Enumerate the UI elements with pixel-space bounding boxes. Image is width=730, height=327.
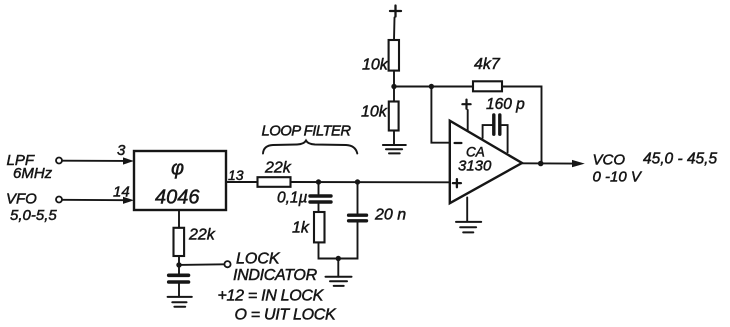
wire to capacitor 0,1u: [318, 182, 320, 194]
resistor 1k vertical: [314, 212, 325, 242]
resistor 22k horizontal loop filter: [258, 177, 291, 187]
op-amp minus sign: [455, 142, 462, 144]
svg-text:13: 13: [228, 167, 244, 183]
svg-text:3: 3: [117, 142, 126, 159]
wire divider node to 10k lower: [393, 87, 395, 102]
wire 20n bottom: [338, 222, 357, 258]
node lock indicator terminal: [224, 261, 230, 267]
wire 4046 bottom to 22k: [178, 210, 180, 228]
capacitor 160p compensation bracket: [483, 125, 492, 138]
wire node to capacitor: [178, 265, 180, 274]
svg-text:VCO: VCO: [593, 152, 626, 169]
svg-text:14: 14: [113, 184, 130, 201]
node divider junction: [391, 84, 396, 89]
node LPF input terminal: [56, 158, 62, 164]
wire main line to op-amp + input: [291, 181, 450, 183]
svg-text:4046: 4046: [155, 187, 200, 209]
node junction dot C loop filter ground: [336, 256, 341, 261]
node junction dot minus branch: [429, 84, 434, 89]
node junction dot B: [355, 179, 360, 184]
wire 22k to node: [178, 256, 180, 265]
resistor 10k upper: [389, 40, 399, 71]
resistor 10k lower: [389, 102, 399, 131]
svg-text:VFO: VFO: [6, 191, 37, 208]
wire VFO to 4046 pin 14: [62, 199, 125, 201]
wire supply to 10k: [393, 18, 396, 41]
wire 1k bottom: [319, 242, 339, 258]
svg-text:1k: 1k: [292, 220, 310, 237]
wire to capacitor 20n: [357, 182, 359, 214]
svg-text:45,0 - 45,5: 45,0 - 45,5: [643, 151, 717, 168]
node output junction dot: [538, 161, 544, 167]
svg-text:160 p: 160 p: [486, 96, 525, 113]
svg-text:20 n: 20 n: [374, 207, 406, 224]
svg-text:10k: 10k: [362, 57, 389, 74]
ground op-amp: [456, 221, 481, 223]
wire 10k to divider node: [393, 71, 395, 87]
capacitor lock filter plates: [169, 273, 189, 277]
power op-amp supply pin: [462, 103, 470, 105]
svg-text:4k7: 4k7: [474, 56, 501, 73]
svg-text:6MHz: 6MHz: [13, 165, 53, 182]
wire 4k7 to output: [502, 87, 542, 164]
svg-text:φ: φ: [171, 158, 184, 180]
svg-text:INDICATOR: INDICATOR: [233, 267, 318, 284]
ground divider: [383, 144, 406, 146]
svg-text:3130: 3130: [458, 158, 492, 175]
wire 10k lower to ground: [393, 131, 395, 145]
capacitor 0,1u plates: [310, 194, 331, 197]
svg-text:22k: 22k: [188, 227, 216, 244]
node junction dot A: [316, 179, 321, 184]
svg-text:0,1µ: 0,1µ: [277, 190, 308, 207]
wire to lock indicator terminal: [179, 263, 224, 266]
IC U1 4046 phase comparator box: [134, 151, 226, 210]
power +12 supply symbol: [390, 10, 401, 12]
resistor 4k7 feedback: [473, 81, 502, 91]
svg-text:0 -10 V: 0 -10 V: [593, 169, 643, 186]
svg-text:22k: 22k: [264, 160, 292, 177]
svg-text:5,0-5,5: 5,0-5,5: [10, 207, 57, 224]
wire to ground: [337, 259, 339, 277]
wire output to VCO arrow: [522, 162, 573, 164]
svg-text:+12 = IN LOCK: +12 = IN LOCK: [218, 288, 325, 305]
op-amp plus sign: [453, 182, 461, 184]
brace loop filter: [263, 141, 357, 154]
node VFO input terminal: [56, 197, 62, 203]
svg-text:LOOP FILTER: LOOP FILTER: [262, 124, 352, 140]
svg-text:LOCK: LOCK: [236, 251, 281, 268]
capacitor 20n plates: [349, 213, 367, 216]
ground loop filter: [326, 276, 352, 278]
ground lock: [168, 296, 192, 298]
op-amp U2 CA3130 triangle: [450, 121, 522, 204]
wire capacitor to ground: [178, 284, 180, 297]
wire op-amp to ground: [466, 198, 468, 222]
svg-text:10k: 10k: [361, 104, 388, 121]
wire divider node to 4k7: [394, 86, 473, 88]
node junction dot lock: [176, 262, 181, 267]
wire pin 13 output: [226, 181, 258, 183]
svg-text:O = UIT LOCK: O = UIT LOCK: [235, 307, 337, 324]
wire LPF to 4046 pin 3: [62, 160, 125, 162]
resistor 22k vertical lock: [174, 228, 185, 256]
wire to inverting input: [431, 87, 449, 143]
wire cap to resistor 1k: [318, 204, 320, 213]
